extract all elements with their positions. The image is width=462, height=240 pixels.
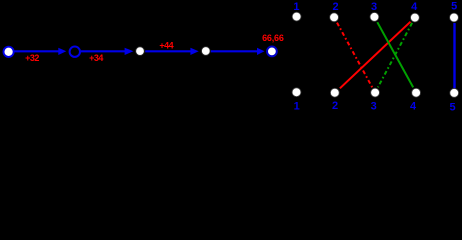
svg-text:5: 5: [451, 1, 457, 13]
svg-text:+32: +32: [25, 53, 39, 63]
svg-text:1: 1: [293, 1, 299, 13]
svg-text:2: 2: [332, 1, 338, 13]
svg-text:4: 4: [410, 100, 417, 111]
svg-text:3: 3: [371, 100, 377, 111]
svg-text:3: 3: [371, 1, 377, 13]
svg-text:2: 2: [332, 100, 338, 111]
svg-text:+44: +44: [159, 40, 173, 50]
svg-text:66,66: 66,66: [262, 33, 284, 43]
svg-text:+34: +34: [89, 53, 103, 63]
svg-text:5: 5: [450, 102, 456, 111]
svg-text:4: 4: [411, 1, 418, 13]
svg-text:1: 1: [294, 100, 300, 111]
